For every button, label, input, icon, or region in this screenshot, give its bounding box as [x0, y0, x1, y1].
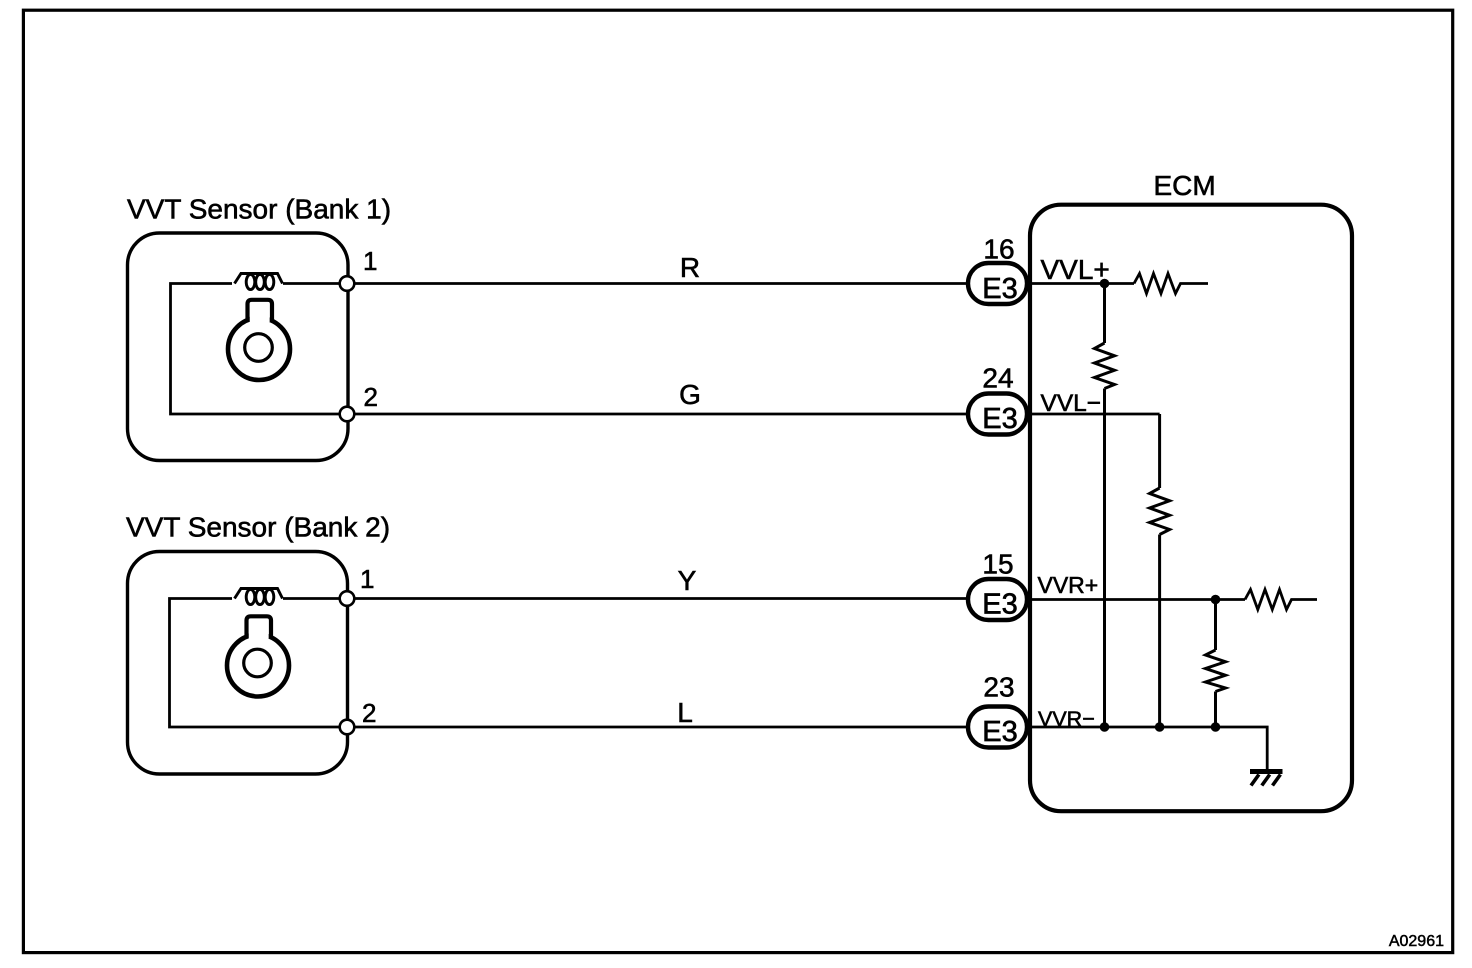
- svg-text:15: 15: [982, 549, 1013, 580]
- svg-text:Y: Y: [678, 565, 697, 596]
- svg-text:L: L: [677, 697, 693, 728]
- svg-text:VVT Sensor (Bank 1): VVT Sensor (Bank 1): [127, 194, 391, 225]
- svg-text:VVR−: VVR−: [1038, 707, 1095, 731]
- svg-text:R: R: [680, 252, 700, 283]
- svg-text:16: 16: [983, 234, 1014, 265]
- svg-text:1: 1: [363, 246, 377, 276]
- svg-text:23: 23: [983, 672, 1014, 703]
- svg-text:G: G: [679, 379, 701, 410]
- svg-text:24: 24: [982, 363, 1013, 394]
- svg-text:A02961: A02961: [1389, 933, 1444, 950]
- svg-text:VVL−: VVL−: [1041, 390, 1102, 417]
- svg-text:1: 1: [360, 564, 374, 594]
- svg-text:2: 2: [364, 382, 378, 412]
- svg-text:E3: E3: [982, 403, 1017, 435]
- svg-text:E3: E3: [982, 273, 1017, 305]
- svg-text:E3: E3: [982, 589, 1017, 621]
- svg-text:ECM: ECM: [1154, 170, 1216, 201]
- svg-text:VVT Sensor (Bank 2): VVT Sensor (Bank 2): [126, 512, 390, 543]
- svg-text:VVR+: VVR+: [1038, 572, 1099, 598]
- svg-text:VVL+: VVL+: [1041, 254, 1110, 285]
- svg-text:2: 2: [362, 698, 376, 728]
- svg-text:E3: E3: [982, 716, 1017, 748]
